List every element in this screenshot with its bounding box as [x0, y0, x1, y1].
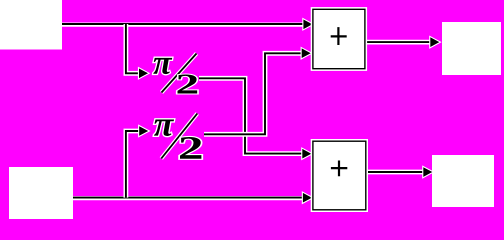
phase shifter 1 label pi [153, 58, 172, 74]
phase shifter 1 fraction slash [162, 54, 197, 93]
plus sign of adder U1 [331, 27, 347, 45]
wire: input2 to adder U2 bottom input [73, 193, 312, 203]
phase shifter 1 label 2 [178, 74, 198, 93]
wire: adder U2 output to output box 2 [366, 167, 433, 177]
phase shifter 2 label pi [154, 119, 174, 136]
wire: branch down to phase shifter 1 [126, 24, 148, 78]
output box 1 (top-right white block) [442, 22, 501, 75]
adder U1 (summing block, top) [313, 9, 365, 68]
input box 2 (bottom-left white block) [9, 167, 73, 219]
wire: input1 to adder U1 top input [62, 20, 312, 30]
adder U2 (summing block, bottom) [313, 141, 366, 210]
wire: phase shifter 2 output to adder U1 bottom input [204, 48, 311, 134]
plus sign of adder U2 [331, 161, 347, 177]
phase shifter 2 fraction slash [161, 114, 197, 159]
phase shifter 2 label 2 [180, 137, 201, 159]
wire: adder U1 output to output box 1 [365, 37, 439, 47]
input box 1 (top-left white block) [0, 0, 62, 50]
wire: phase shifter 1 output to adder U2 top input [199, 78, 311, 158]
output box 2 (bottom-right white block) [432, 155, 494, 207]
wire: branch up to phase shifter 2 [126, 126, 148, 197]
